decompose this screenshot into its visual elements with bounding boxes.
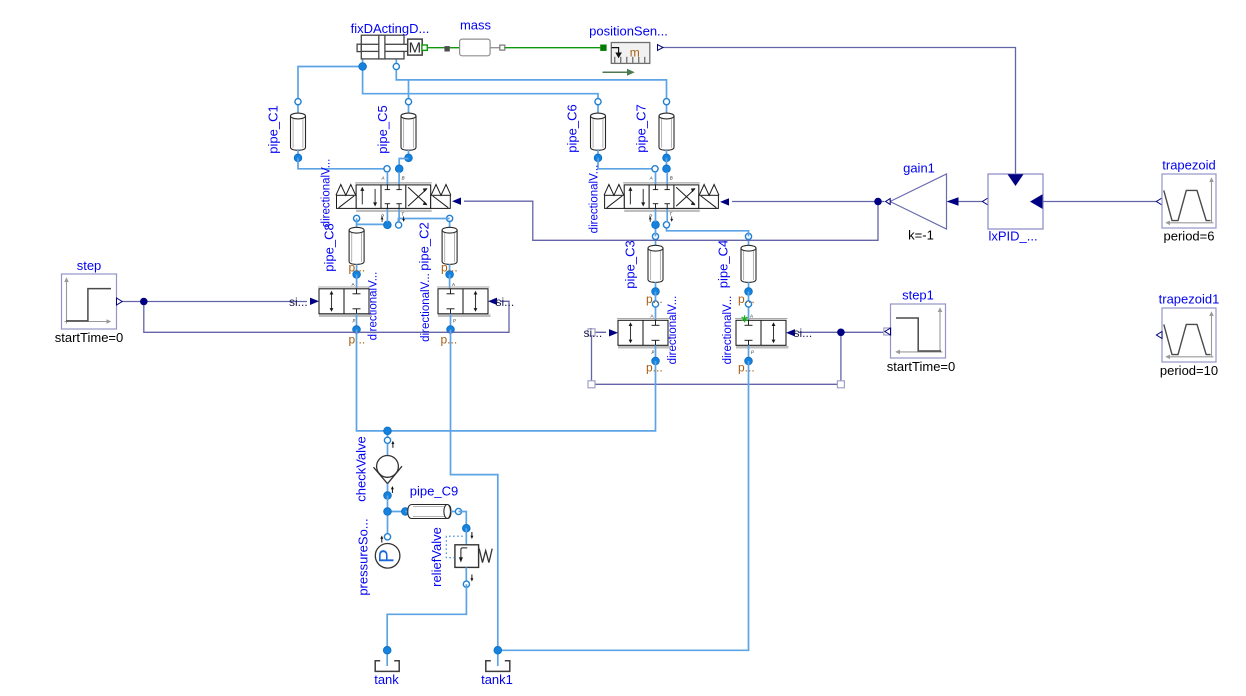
node cylinder portB (open) [393, 63, 399, 69]
flange square open at mass right [500, 45, 505, 50]
green flange line cylinder to mass [427, 47, 445, 49]
svg-text:pipe_C6: pipe_C6 [565, 104, 580, 152]
svg-text:pipe_C2: pipe_C2 [417, 222, 432, 270]
wire valve2 portT to pipe_C4 [667, 225, 749, 237]
svg-text:P: P [376, 549, 399, 563]
node corner square right [837, 381, 844, 388]
svg-text:si...: si... [584, 326, 603, 340]
node supply junction (filled) [384, 427, 392, 435]
wire pipe_C8 to valveA top [356, 275, 358, 290]
svg-text:step1: step1 [902, 288, 934, 303]
valve directionalV3 (2/2, lower left B) [420, 273, 491, 342]
sensor positionSen body [611, 43, 650, 64]
wire valveA out to supply rail [357, 330, 656, 431]
lxPID output triangle [982, 198, 988, 205]
svg-text:checkValve: checkValve [354, 436, 369, 502]
gain triangle [890, 174, 947, 229]
node valve2 portB (filled) [663, 165, 671, 173]
wire valve5 out to tank1 [498, 361, 749, 650]
flange square green filled at sensor input [600, 45, 606, 51]
wire pipe_C9 to reliefValve [459, 512, 467, 529]
pipe pipe_C4 [716, 233, 757, 295]
node cylinder portA (filled) [359, 63, 367, 71]
svg-text:startTime=0: startTime=0 [55, 330, 124, 345]
svg-text:directionalV...: directionalV... [667, 296, 679, 365]
svg-text:p...: p... [646, 292, 663, 306]
svg-text:pipe_C4: pipe_C4 [716, 240, 731, 288]
wire trapezoid to lxPID [1043, 201, 1156, 203]
wire lxPID out to gain in [958, 201, 982, 203]
tank [375, 647, 399, 672]
wire step1 to valve4 and valve5 [592, 332, 884, 384]
flange square green open at cylinder output [422, 45, 427, 50]
arrow into valve5 [786, 329, 795, 336]
valve directionalV1 (4/3, upper right) [589, 165, 719, 234]
svg-text:fixDActingD...: fixDActingD... [351, 21, 430, 36]
node pipe_C3 out (open) [652, 301, 658, 307]
svg-text:p...: p... [646, 361, 663, 375]
svg-text:p: p [750, 349, 754, 354]
block step [62, 274, 123, 329]
gain output triangle [886, 199, 891, 205]
wire valveB out to tank1 [451, 330, 498, 651]
pipe pipe_C3 [623, 233, 663, 295]
svg-text:directionalV...: directionalV... [722, 296, 734, 365]
wire cylinder portA to pipe_C6 [363, 67, 598, 99]
svg-text:p...: p... [738, 361, 755, 375]
pipe pipe_C7 [634, 99, 674, 162]
output triangle of sensor [658, 45, 664, 51]
wire pipe_C2 to valveB top [449, 275, 451, 290]
wire checkValve to pump junction [387, 496, 389, 537]
checkValve [374, 437, 403, 499]
node gain output junction [874, 198, 882, 206]
node valve2 portT (open) [663, 222, 669, 228]
svg-text:directionalV...: directionalV... [589, 165, 601, 234]
valve directionalV2 (2/2, lower left A) [318, 272, 379, 341]
svg-text:pipe_C1: pipe_C1 [266, 105, 281, 153]
svg-text:reliefValve: reliefValve [429, 527, 444, 587]
svg-text:p: p [651, 349, 655, 354]
block trapezoid [1162, 174, 1216, 228]
svg-text:trapezoid1: trapezoid1 [1159, 292, 1220, 307]
arrow into valve4 [609, 329, 618, 336]
svg-text:period=6: period=6 [1164, 229, 1215, 244]
reliefValve [446, 524, 492, 587]
arrow into gain [947, 197, 959, 206]
pipe pipe_C1 [266, 99, 306, 162]
svg-text:M: M [409, 40, 422, 57]
valve directionalV4 (2/2, lower right) [617, 296, 679, 365]
svg-text:pipe_C7: pipe_C7 [634, 104, 649, 152]
svg-text:p...: p... [349, 261, 366, 275]
node valve2 portA (open) [652, 166, 658, 172]
wire positionSensor output to lxPID top [663, 48, 1016, 175]
node step output junction [140, 298, 148, 306]
svg-text:step: step [77, 258, 102, 273]
pipe pipe_C5 [375, 99, 416, 162]
svg-text:gain1: gain1 [903, 161, 935, 176]
wire valve1 portT to pipe_C2 [398, 219, 449, 226]
svg-text:pressureSo...: pressureSo... [356, 518, 371, 595]
wire pipe_C3 to valve3 top [655, 292, 657, 321]
svg-text:p...: p... [441, 333, 458, 347]
arrow below sensor (direction of motion) [603, 71, 628, 73]
wire cylinder stubs [362, 59, 364, 67]
svg-text:directionalV...: directionalV... [420, 273, 432, 342]
node valve1 portA (open) [384, 166, 390, 172]
gray flange line mass right [490, 47, 500, 49]
wire cylinder portA to pipe_C1 [298, 67, 363, 99]
state-select star at valve5 [742, 315, 748, 322]
valve directionalV (4/3, upper left) [321, 159, 451, 228]
pipe pipe_C9 (horizontal) [402, 505, 462, 519]
wire supply rail to checkValve [387, 431, 389, 440]
block lxPID [988, 174, 1043, 229]
wire junction to pipe_C9 [388, 511, 406, 513]
svg-text:A: A [452, 282, 456, 287]
svg-text:k=-1: k=-1 [908, 228, 934, 243]
svg-text:A: A [650, 313, 654, 318]
block trapezoid1 [1156, 308, 1216, 362]
source pressureSo [375, 534, 400, 568]
arrow into valve2 [720, 198, 729, 205]
wire cylinder portB to pipe_C5 and pipe_C7 [396, 67, 666, 99]
motor box M of cylinder [408, 39, 423, 55]
svg-text:pipe_C8: pipe_C8 [322, 223, 337, 271]
block step1 [884, 304, 946, 358]
arrow into valveA [310, 298, 319, 305]
svg-text:p...: p... [441, 261, 458, 275]
svg-text:tank1: tank1 [481, 672, 513, 687]
svg-text:tank: tank [374, 672, 399, 687]
wire valve2 portP to pipe_C3 [655, 225, 657, 237]
node step1 junction [837, 329, 845, 337]
node valve2 portP (filled) [652, 221, 660, 229]
svg-text:pipe_C3: pipe_C3 [623, 240, 638, 288]
svg-text:p: p [352, 317, 356, 322]
arrow into lxPID right [1030, 194, 1043, 209]
node pump junction (filled) [384, 508, 392, 516]
flange square dark at mass left [444, 46, 449, 51]
pipe pipe_C8 [322, 215, 364, 278]
wire pipe_C7 to valve2 portB [666, 158, 668, 169]
node valve1 portT (open) [396, 222, 402, 228]
svg-text:p...: p... [738, 292, 755, 306]
pipe pipe_C6 [565, 99, 606, 162]
node pipe_C4 out (open) [745, 301, 751, 307]
svg-text:pipe_C5: pipe_C5 [375, 105, 390, 153]
wire valve1 portP to pipe_C8 [357, 218, 388, 224]
wire pipe_C6 to valve2 portA [598, 158, 655, 169]
svg-text:p: p [452, 317, 456, 322]
arrow into lxPID top [1008, 174, 1024, 186]
valve directionalV5 (2/2, lower right mirrored) [722, 296, 789, 365]
node corner square left [588, 381, 595, 388]
node valve1 portB (filled) [395, 165, 403, 173]
mass block [460, 39, 491, 56]
svg-text:mass: mass [460, 18, 492, 33]
svg-text:A: A [351, 282, 355, 287]
wire step to valveA and valveB [122, 301, 509, 332]
trapezoid output triangle [1156, 198, 1162, 205]
node corner square at valve4 si input [588, 329, 595, 336]
svg-text:directionalV...: directionalV... [321, 159, 333, 228]
cylinder fixDActingD body [357, 35, 409, 59]
wire pipe_C1 to valve1 portA [298, 158, 387, 169]
green flange line mass to positionSensor [505, 47, 600, 49]
svg-text:si...: si... [496, 295, 515, 309]
pipe pipe_C2 [417, 215, 457, 278]
wire pipe_C5 to valve1 portB [399, 159, 408, 169]
wire reliefValve to tank [387, 584, 466, 650]
svg-text:period=10: period=10 [1160, 363, 1218, 378]
arrow into valveB [488, 298, 497, 305]
wire gain junction net [464, 201, 885, 240]
svg-text:pipe_C9: pipe_C9 [410, 484, 458, 499]
node valve1 portP (filled) [384, 221, 392, 229]
svg-text:positionSen...: positionSen... [589, 24, 668, 39]
wire pipe_C4 to valve4 top [748, 292, 750, 321]
tank tank1 [486, 647, 510, 672]
svg-text:si...: si... [794, 326, 813, 340]
svg-text:lxPID_...: lxPID_... [988, 229, 1037, 244]
svg-text:si...: si... [289, 295, 308, 309]
svg-text:A: A [750, 313, 754, 318]
arrow into valve1 [452, 198, 461, 205]
svg-text:trapezoid: trapezoid [1162, 158, 1215, 173]
svg-text:startTime=0: startTime=0 [887, 359, 956, 374]
svg-text:m: m [630, 45, 640, 59]
